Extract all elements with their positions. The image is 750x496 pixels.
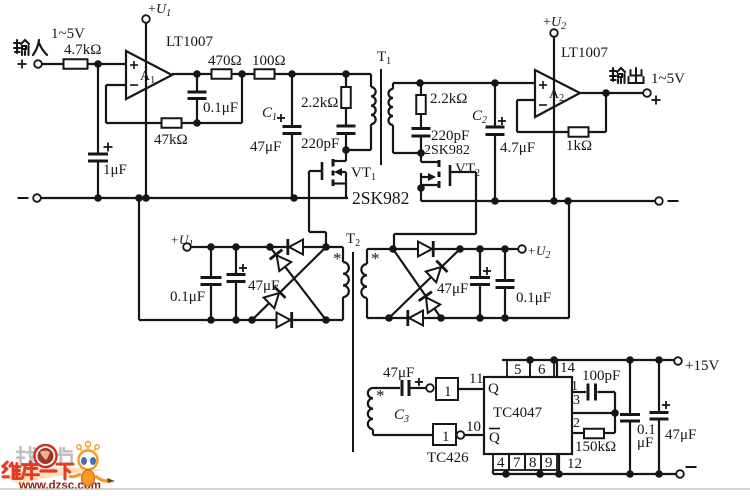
svg-text:TC426: TC426 (427, 450, 469, 466)
svg-text:3: 3 (573, 393, 580, 408)
svg-text:10: 10 (466, 419, 481, 435)
svg-text:11: 11 (469, 371, 483, 387)
svg-text:*: * (376, 386, 385, 405)
svg-text:+: + (171, 232, 178, 247)
svg-text:12: 12 (567, 456, 582, 472)
svg-text:Q: Q (489, 430, 500, 446)
svg-text:0.1μF: 0.1μF (203, 100, 238, 116)
svg-text:4.7μF: 4.7μF (500, 140, 535, 156)
svg-text:6: 6 (538, 362, 546, 378)
svg-text:150kΩ: 150kΩ (575, 439, 616, 455)
svg-text:47μF: 47μF (250, 139, 281, 155)
svg-text:4: 4 (497, 455, 505, 471)
svg-text:2.2kΩ: 2.2kΩ (430, 91, 467, 107)
svg-text:1: 1 (442, 429, 450, 445)
svg-text:0.1μF: 0.1μF (516, 290, 551, 306)
svg-text:1: 1 (571, 379, 578, 394)
svg-text:+: + (543, 15, 551, 30)
svg-text:8: 8 (529, 455, 537, 471)
svg-text:100pF: 100pF (582, 368, 620, 384)
svg-text:LT1007: LT1007 (561, 45, 608, 61)
svg-text:+: + (148, 2, 156, 17)
svg-text:+15V: +15V (685, 358, 719, 374)
svg-text:1μF: 1μF (103, 162, 127, 178)
svg-text:1kΩ: 1kΩ (566, 138, 592, 154)
svg-text:Q: Q (488, 381, 499, 397)
svg-text:2SK982: 2SK982 (352, 188, 409, 208)
svg-text:47μF: 47μF (437, 281, 468, 297)
svg-text:14: 14 (560, 360, 576, 376)
svg-text:2.2kΩ: 2.2kΩ (301, 95, 338, 111)
svg-text:0.1μF: 0.1μF (170, 289, 205, 305)
svg-text:9: 9 (545, 455, 553, 471)
svg-text:1~5V: 1~5V (651, 71, 685, 87)
svg-text:100Ω: 100Ω (252, 53, 286, 69)
svg-text:TC4047: TC4047 (493, 405, 543, 421)
svg-text:2SK982: 2SK982 (424, 143, 470, 158)
svg-text:220pF: 220pF (301, 136, 339, 152)
svg-text:LT1007: LT1007 (166, 34, 213, 50)
svg-text:220pF: 220pF (431, 128, 469, 144)
svg-text:47μF: 47μF (665, 427, 696, 443)
svg-text:*: * (333, 249, 342, 268)
svg-text:1: 1 (444, 384, 452, 400)
svg-text:7: 7 (513, 455, 521, 471)
svg-text:4.7kΩ: 4.7kΩ (64, 42, 101, 58)
svg-text:5: 5 (514, 362, 522, 378)
svg-text:+: + (528, 243, 535, 258)
svg-text:47kΩ: 47kΩ (154, 132, 188, 148)
svg-text:470Ω: 470Ω (208, 53, 242, 69)
svg-text:47μF: 47μF (248, 278, 279, 294)
svg-text:*: * (371, 249, 380, 268)
svg-text:47μF: 47μF (383, 365, 414, 381)
svg-text:μF: μF (637, 435, 653, 451)
svg-text:1~5V: 1~5V (51, 26, 85, 42)
svg-text:2: 2 (573, 416, 580, 431)
